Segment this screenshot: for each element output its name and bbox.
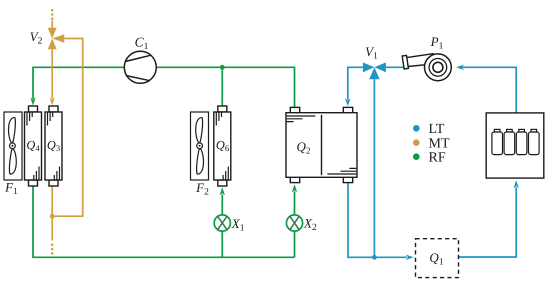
svg-text:MT: MT [429,136,450,151]
svg-text:RF: RF [429,150,446,165]
svg-text:LT: LT [429,122,445,137]
